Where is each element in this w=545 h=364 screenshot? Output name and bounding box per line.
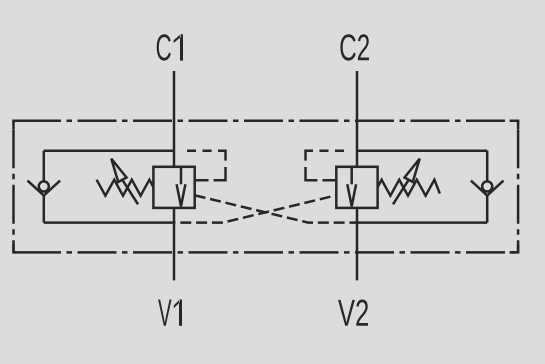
counterbalance valve right relief arrow stem	[350, 167, 353, 185]
wire right loop bottom edge	[357, 221, 487, 224]
valve body envelope (dash-dot boundary)	[14, 121, 519, 253]
wire right loop top edge	[357, 149, 487, 152]
wire right check-valve branch lower	[486, 196, 489, 223]
pilot line A (left valve to V2, dashed crossover)	[195, 195, 357, 222]
port label V1	[158, 300, 182, 326]
counterbalance valve left body	[153, 167, 194, 208]
counterbalance valve left relief arrow head	[177, 184, 186, 206]
adjustment arrow left head	[111, 159, 126, 182]
spring left (adjustable)	[97, 180, 154, 196]
counterbalance valve right body	[336, 167, 377, 208]
port label C1	[157, 34, 183, 60]
pilot line right (dashed loop from C2)	[306, 151, 345, 181]
spring right (adjustable)	[378, 180, 440, 196]
wire C1 vertical	[173, 71, 176, 167]
wire C2 vertical	[356, 71, 359, 167]
check valve CV2 ball	[482, 181, 492, 191]
check valve CV2 seat	[471, 181, 504, 196]
pilot line B (right valve to V1, dashed crossover)	[174, 195, 336, 222]
check valve CV1 seat	[28, 181, 61, 196]
check valve CV1 ball	[39, 181, 49, 191]
wire left check-valve branch upper	[43, 151, 46, 182]
wire left loop top edge	[44, 149, 174, 152]
port label C2	[340, 34, 369, 60]
adjustment arrow right shaft	[393, 180, 408, 204]
wire left check-valve branch lower	[43, 196, 46, 223]
wire V2 vertical	[356, 208, 359, 281]
adjustment arrow right head	[405, 159, 420, 182]
port label V2	[338, 300, 368, 326]
adjustment arrow left shaft	[123, 180, 138, 204]
pilot line left (dashed loop from C1)	[187, 151, 226, 181]
counterbalance valve right relief arrow head	[347, 184, 356, 206]
wire right check-valve branch upper	[486, 151, 489, 182]
wire V1 vertical	[173, 208, 176, 281]
counterbalance valve left relief arrow stem	[180, 167, 183, 185]
envelope corner ticks	[14, 121, 519, 253]
wire left loop bottom edge	[44, 221, 174, 224]
